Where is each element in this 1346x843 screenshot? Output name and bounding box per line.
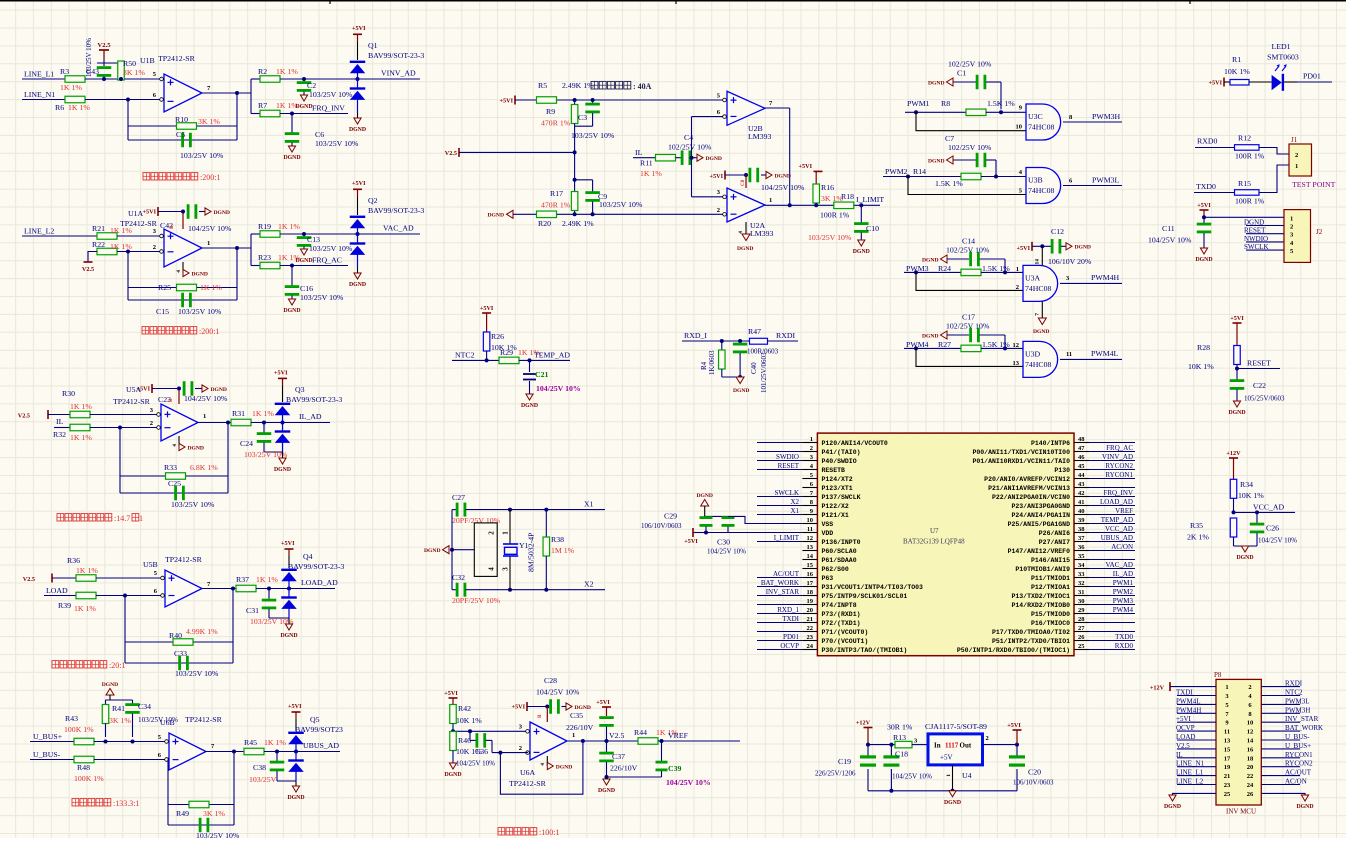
- svg-text:10K 1%: 10K 1%: [1188, 362, 1214, 371]
- capacitor C21: [523, 360, 581, 394]
- svg-text:33: 33: [1078, 571, 1085, 578]
- svg-text:32: 32: [1078, 580, 1085, 587]
- wire R15 to J1: [1259, 165, 1289, 193]
- svg-text:: 40A: : 40A: [633, 82, 652, 91]
- net LOAD_AD wire: [256, 578, 338, 591]
- svg-text:+12V: +12V: [1150, 685, 1165, 692]
- svg-text:2: 2: [717, 207, 720, 214]
- svg-text:2: 2: [1290, 224, 1293, 231]
- svg-text:102/25V 10%: 102/25V 10%: [948, 143, 992, 152]
- svg-text:IL: IL: [56, 417, 64, 426]
- svg-text:10K 1%: 10K 1%: [456, 716, 482, 725]
- svg-text:15: 15: [1224, 746, 1231, 753]
- LED LED1: [1267, 42, 1299, 91]
- svg-text:1K 1%: 1K 1%: [70, 402, 92, 411]
- svg-text:LINE_L2: LINE_L2: [1176, 778, 1204, 786]
- svg-text:TEMP_AD: TEMP_AD: [1101, 516, 1133, 524]
- svg-text:VSS: VSS: [822, 521, 834, 528]
- svg-text:18: 18: [1247, 755, 1254, 762]
- capacitor C43: [85, 38, 111, 79]
- feedback R10: [126, 93, 237, 160]
- svg-text:2K 1%: 2K 1%: [1187, 533, 1209, 542]
- net I_LIMIT: [856, 195, 884, 204]
- svg-text:1K 1%: 1K 1%: [76, 566, 98, 575]
- svg-text:R40: R40: [169, 631, 182, 640]
- svg-text:10K 1%: 10K 1%: [1238, 491, 1264, 500]
- svg-text:V2.5: V2.5: [609, 731, 624, 740]
- svg-text:C16: C16: [300, 284, 313, 293]
- svg-text:P30/INTP3/TAO/(TMIOB1): P30/INTP3/TAO/(TMIOB1): [822, 647, 908, 654]
- svg-text:P75/INTP9/SCLK01/SCL01: P75/INTP9/SCLK01/SCL01: [822, 593, 908, 600]
- svg-text:+5VI: +5VI: [352, 25, 366, 32]
- svg-text:10: 10: [1016, 124, 1023, 131]
- svg-text:20: 20: [807, 607, 814, 614]
- AND gate U3A: [1016, 265, 1058, 301]
- svg-text:3K 1%: 3K 1%: [123, 68, 145, 77]
- net V2.5 R44: [607, 731, 639, 741]
- capacitor C26: [1250, 512, 1297, 546]
- svg-text:PD01: PD01: [1303, 72, 1321, 81]
- wire: [97, 61, 121, 66]
- svg-text:RYCON2: RYCON2: [1105, 462, 1133, 470]
- svg-text:P21/ANI1AVREFM/VCIN13: P21/ANI1AVREFM/VCIN13: [988, 485, 1070, 492]
- svg-text:42: 42: [1078, 490, 1085, 497]
- svg-text:P62/S00: P62/S00: [822, 566, 849, 573]
- svg-text:P14/RXD2/TMIOB0: P14/RXD2/TMIOB0: [1011, 602, 1070, 609]
- capacitor C1: [928, 60, 1001, 110]
- svg-text:BAV99/SOT-23-3: BAV99/SOT-23-3: [368, 206, 424, 215]
- net VCC_AD: [1232, 503, 1296, 515]
- svg-text:V2.5: V2.5: [97, 42, 111, 49]
- svg-text:104/25V 10%: 104/25V 10%: [892, 773, 932, 781]
- op-amp U5A: [113, 385, 206, 441]
- svg-text:RESET: RESET: [778, 462, 800, 470]
- pin4 ground U1A: [176, 262, 208, 277]
- svg-text:28: 28: [1078, 616, 1085, 623]
- svg-text:1.5K 1%: 1.5K 1%: [987, 99, 1015, 108]
- svg-text:LM393: LM393: [748, 132, 771, 141]
- feedback R33 C25: [118, 423, 228, 510]
- caption bus ratio 133.3:1: [72, 799, 139, 808]
- ground DGND Q5: [287, 781, 304, 801]
- svg-text:C2: C2: [307, 81, 316, 90]
- svg-text:VAC_AD: VAC_AD: [1106, 561, 1134, 569]
- svg-text:30: 30: [1078, 598, 1085, 605]
- svg-text:21: 21: [807, 616, 814, 623]
- svg-text:VDD: VDD: [822, 530, 834, 537]
- svg-text:104/25V 10%: 104/25V 10%: [456, 760, 495, 768]
- svg-text:2: 2: [1295, 152, 1298, 159]
- capacitor C39: [605, 741, 711, 787]
- svg-text:34: 34: [1078, 562, 1085, 569]
- svg-text:U1B: U1B: [140, 56, 155, 65]
- svg-text:3K 1%: 3K 1%: [109, 716, 131, 725]
- svg-text:R4: R4: [700, 361, 708, 370]
- svg-text:102/25V 10%: 102/25V 10%: [948, 60, 992, 69]
- capacitor C13: [297, 234, 353, 253]
- svg-text:P60/SCLA0: P60/SCLA0: [822, 548, 857, 555]
- svg-text:105/25V/0603: 105/25V/0603: [1244, 395, 1285, 403]
- svg-text:R46: R46: [458, 736, 471, 745]
- power +5VI J2: [1197, 202, 1284, 219]
- svg-text:R3: R3: [60, 67, 69, 76]
- svg-text:DGND: DGND: [853, 249, 870, 255]
- svg-text:P41/(TAI0): P41/(TAI0): [822, 449, 861, 456]
- net PWM3: [904, 264, 1007, 274]
- svg-text:R26: R26: [491, 332, 504, 341]
- svg-text:29: 29: [1078, 607, 1085, 614]
- net label U_BUS-: [30, 750, 74, 760]
- svg-text:13: 13: [1013, 360, 1020, 367]
- svg-text:1.5K 1%: 1.5K 1%: [935, 179, 963, 188]
- svg-text:104/25V 10%: 104/25V 10%: [536, 688, 580, 697]
- svg-text:TP2412-SR: TP2412-SR: [158, 54, 196, 63]
- svg-text:R44: R44: [634, 728, 647, 737]
- regulator U4 CJA1117-5/SOT-89: [925, 722, 989, 791]
- svg-text:PWM3L: PWM3L: [1285, 697, 1310, 705]
- svg-text:V2.5: V2.5: [23, 576, 35, 583]
- svg-text:+5VI: +5VI: [143, 209, 157, 216]
- svg-text:DGND: DGND: [922, 258, 938, 264]
- capacitor C6: [285, 114, 359, 149]
- power V2.5 U5B: [23, 574, 76, 584]
- svg-text:R43: R43: [65, 714, 78, 723]
- svg-text:1: 1: [1016, 266, 1019, 273]
- svg-text:Out: Out: [960, 742, 972, 750]
- net label IL comp: [633, 148, 656, 158]
- net VINV_AD wire: [280, 69, 420, 82]
- crystal Y1: [503, 510, 536, 590]
- svg-text:41: 41: [1078, 499, 1085, 506]
- svg-text:R11: R11: [640, 159, 653, 168]
- resistor R28 RESET: [1188, 315, 1280, 380]
- svg-text:DGND: DGND: [696, 493, 712, 499]
- svg-text:LED1: LED1: [1271, 42, 1290, 51]
- svg-text:R33: R33: [164, 463, 177, 472]
- decoupling C23: [137, 381, 228, 404]
- net IL_AD wire: [251, 412, 330, 425]
- svg-text:7: 7: [1035, 313, 1041, 316]
- svg-text:R22: R22: [92, 240, 105, 249]
- svg-text:C27: C27: [452, 493, 465, 502]
- net label LOAD: [44, 586, 76, 596]
- svg-text:226/25V/1206: 226/25V/1206: [815, 770, 856, 778]
- svg-text:Q5: Q5: [310, 715, 320, 724]
- svg-text:DGND: DGND: [928, 81, 944, 87]
- svg-text:106/10V 20%: 106/10V 20%: [1048, 257, 1092, 266]
- net label LINE_L2: [22, 227, 97, 237]
- svg-text:AC/OUT: AC/OUT: [1285, 769, 1312, 777]
- svg-text:Q4: Q4: [303, 552, 313, 561]
- resistor R3: [60, 67, 85, 92]
- svg-text:C3: C3: [578, 113, 587, 122]
- svg-text:30R 1%: 30R 1%: [887, 723, 913, 732]
- svg-text:1.5K 1%: 1.5K 1%: [982, 340, 1010, 349]
- svg-text:DGND: DGND: [928, 159, 944, 165]
- wire out U5A: [198, 421, 231, 425]
- svg-text:PD01: PD01: [783, 633, 799, 641]
- pin4 ground U5A: [172, 436, 204, 451]
- svg-text::14.7: :14.7: [114, 514, 130, 523]
- capacitor C12: [1017, 227, 1092, 266]
- svg-text:R12: R12: [1238, 134, 1251, 143]
- svg-text:+5VI: +5VI: [1197, 202, 1211, 209]
- svg-text:AC/ON: AC/ON: [1285, 778, 1307, 786]
- svg-text:12: 12: [1247, 729, 1254, 736]
- svg-text:DGND: DGND: [295, 104, 312, 110]
- svg-text:R17: R17: [550, 189, 563, 198]
- connector J1: [1289, 136, 1336, 189]
- svg-text:1: 1: [207, 240, 210, 247]
- svg-text:103/25V 10%: 103/25V 10%: [315, 139, 359, 148]
- svg-text:103/25V 10%: 103/25V 10%: [180, 151, 224, 160]
- svg-text:DGND: DGND: [598, 788, 615, 794]
- svg-text:DGND: DGND: [521, 403, 538, 409]
- wire to U2A pin2: [557, 212, 727, 216]
- resistor R45: [244, 738, 286, 755]
- resistor R42: [444, 690, 482, 731]
- svg-text:1: 1: [946, 774, 952, 777]
- ground DGND Q3: [274, 452, 291, 473]
- svg-text:PWM2: PWM2: [885, 167, 908, 176]
- wire out U6B: [206, 750, 244, 754]
- svg-text:DGND: DGND: [1228, 410, 1245, 416]
- svg-text:C8: C8: [741, 179, 746, 186]
- svg-text:R23: R23: [258, 253, 271, 262]
- ground rail U4: [868, 789, 1017, 806]
- resistor R46: [450, 732, 483, 764]
- svg-text:24: 24: [807, 643, 814, 650]
- net RXD_I: [682, 331, 750, 343]
- net PWM2: [883, 167, 998, 179]
- wire pin2 U3A: [916, 272, 1023, 290]
- svg-text:1: 1: [139, 514, 143, 523]
- svg-text:2: 2: [150, 420, 153, 427]
- capacitor C37: [599, 741, 637, 777]
- svg-text:TP2412-SR: TP2412-SR: [165, 555, 203, 564]
- svg-text:11: 11: [807, 526, 813, 533]
- diode pair Q3: [274, 370, 342, 453]
- svg-text:V2.5: V2.5: [82, 266, 94, 273]
- resistor R50: [118, 59, 146, 80]
- capacitor C10: [808, 205, 879, 242]
- svg-text:U6A: U6A: [520, 768, 536, 777]
- svg-text:74HC08: 74HC08: [1028, 123, 1055, 132]
- svg-text:BAT_WORK: BAT_WORK: [761, 579, 799, 587]
- svg-text:26: 26: [1078, 634, 1085, 641]
- svg-text:BAV99/SOT-23-3: BAV99/SOT-23-3: [368, 51, 424, 60]
- svg-text:DGND: DGND: [737, 246, 753, 252]
- svg-text:DGND: DGND: [287, 795, 304, 801]
- op-amp U1A: [120, 209, 210, 267]
- svg-text:VINV_AD: VINV_AD: [1102, 453, 1133, 461]
- svg-text:P63: P63: [822, 575, 834, 582]
- svg-text:C34: C34: [138, 702, 151, 711]
- capacitor C11: [1148, 217, 1211, 248]
- svg-text:R36: R36: [67, 556, 80, 565]
- svg-text:+5V: +5V: [940, 754, 953, 762]
- svg-text:DGND: DGND: [424, 548, 440, 554]
- ground DGND Q4: [280, 618, 297, 639]
- svg-text:13: 13: [807, 544, 814, 551]
- svg-text:1117: 1117: [945, 742, 959, 750]
- pin4 ground U6A: [509, 756, 572, 788]
- power +5VI comparator: [500, 96, 537, 105]
- svg-text:U4: U4: [962, 771, 972, 780]
- svg-text:C36: C36: [475, 747, 488, 756]
- svg-text:+5VI: +5VI: [799, 163, 813, 170]
- J2 wires: [1244, 219, 1284, 252]
- ground DGND R4: [722, 375, 750, 394]
- svg-text:DGND: DGND: [283, 155, 300, 161]
- svg-text:DGND: DGND: [444, 772, 461, 778]
- svg-text:DGND: DGND: [280, 633, 297, 639]
- ground DGND C4: [697, 154, 722, 162]
- power +5VI C29: [684, 528, 728, 545]
- svg-text:+5VI: +5VI: [596, 699, 610, 706]
- svg-text:12: 12: [807, 535, 814, 542]
- svg-text:LOAD: LOAD: [1176, 733, 1195, 741]
- svg-text:U5A: U5A: [126, 385, 142, 394]
- capacitor C36: [456, 731, 495, 767]
- wire: [85, 99, 160, 101]
- svg-text:103/25V 10%: 103/25V 10%: [85, 38, 93, 77]
- op-amp U2B: [717, 91, 773, 141]
- net label IL: [54, 417, 70, 428]
- feedback R25 C15: [126, 248, 237, 316]
- svg-text:P136/INPT0: P136/INPT0: [822, 539, 861, 546]
- svg-text:R18: R18: [841, 192, 854, 201]
- svg-text:U5B: U5B: [143, 560, 158, 569]
- svg-text:R35: R35: [1190, 521, 1203, 530]
- ground DGND R35: [1234, 546, 1258, 561]
- ground DGND C2: [295, 95, 312, 110]
- svg-text:1K 1%: 1K 1%: [70, 433, 92, 442]
- svg-text:Q3: Q3: [295, 385, 305, 394]
- svg-text:BAT32G139 LQFP48: BAT32G139 LQFP48: [903, 538, 965, 546]
- svg-text:2: 2: [1016, 284, 1019, 291]
- svg-text:SMT0603: SMT0603: [1267, 53, 1299, 62]
- svg-text:Q1: Q1: [368, 41, 378, 50]
- wire pin5: [908, 177, 1026, 195]
- svg-text:P10TMIOB1/ANI9: P10TMIOB1/ANI9: [1015, 566, 1070, 573]
- svg-text:2.49K 1%: 2.49K 1%: [562, 81, 594, 90]
- svg-text:V2.5: V2.5: [445, 150, 457, 157]
- resistor R6: [55, 96, 90, 112]
- resistor R1 with LED1: [1209, 55, 1272, 87]
- capacitor C40: [733, 341, 768, 393]
- svg-text:12: 12: [1013, 342, 1020, 349]
- svg-text:100R 1%: 100R 1%: [1235, 197, 1265, 206]
- svg-text:VCC_AD: VCC_AD: [1253, 503, 1285, 512]
- svg-text:P120/ANI14/VCOUT0: P120/ANI14/VCOUT0: [822, 440, 888, 447]
- caption inductor current ratio: [57, 514, 143, 523]
- svg-text::100:1: :100:1: [539, 828, 559, 837]
- svg-text:TXDI: TXDI: [782, 615, 799, 623]
- svg-text:X1: X1: [584, 500, 594, 509]
- svg-text:LOAD: LOAD: [46, 586, 68, 595]
- svg-text::133.3:1: :133.3:1: [113, 799, 139, 808]
- net RXDI: [768, 331, 799, 341]
- svg-text:+5VI: +5VI: [1230, 315, 1244, 322]
- svg-text:46: 46: [1078, 454, 1085, 461]
- decoupling C8: [710, 168, 805, 192]
- capacitor C7: [928, 134, 996, 177]
- svg-text:16: 16: [1247, 746, 1254, 753]
- decoupling C42: [143, 204, 232, 233]
- diode pair Q2: [349, 180, 424, 288]
- wire: [117, 235, 160, 237]
- svg-text:C20: C20: [1028, 768, 1041, 777]
- svg-text:LINE_N1: LINE_N1: [24, 90, 55, 99]
- op-amp U1B: [140, 54, 211, 112]
- op-amp U6B: [158, 715, 223, 770]
- net label LINE_N1: [22, 90, 65, 100]
- svg-text:P15/TMIOD0: P15/TMIOD0: [1031, 611, 1070, 618]
- svg-text:1M 1%: 1M 1%: [551, 546, 575, 555]
- capacitor C3: [571, 100, 615, 152]
- svg-text:1: 1: [1295, 163, 1298, 170]
- svg-text:TXD0: TXD0: [1115, 633, 1133, 641]
- svg-text:P70/(VCOUT1): P70/(VCOUT1): [822, 638, 869, 645]
- svg-text:C32: C32: [452, 573, 465, 582]
- svg-text:R30: R30: [62, 389, 75, 398]
- svg-text:10K 1%: 10K 1%: [1224, 67, 1250, 76]
- svg-text:35: 35: [1078, 553, 1085, 560]
- svg-text:+5VI: +5VI: [1209, 80, 1223, 87]
- svg-text:2: 2: [153, 244, 156, 251]
- svg-text:P121/X1: P121/X1: [822, 512, 849, 519]
- wire pin10: [916, 112, 1026, 130]
- svg-text:20PF/25V 10%: 20PF/25V 10%: [452, 516, 501, 525]
- wire to U2B pin5: [557, 98, 727, 102]
- svg-text:VAC_AD: VAC_AD: [383, 224, 414, 233]
- svg-text:PWM1: PWM1: [1113, 579, 1134, 587]
- svg-text:UBUS_AD: UBUS_AD: [303, 741, 339, 750]
- svg-text:LM393: LM393: [750, 229, 773, 238]
- caption sampling ratio 200:1: [143, 173, 220, 182]
- svg-text:17: 17: [1224, 755, 1231, 762]
- resistor R48: [74, 756, 170, 783]
- wire divider: [573, 152, 593, 214]
- svg-text:1K 1%: 1K 1%: [256, 575, 278, 584]
- resistor R24: [938, 264, 1023, 276]
- svg-text:103/25V 10%: 103/25V 10%: [300, 293, 344, 302]
- svg-text:+5VI: +5VI: [352, 180, 366, 187]
- svg-text:39: 39: [1078, 517, 1085, 524]
- svg-text:SWDIO: SWDIO: [776, 453, 799, 461]
- svg-text:PWM3H: PWM3H: [1285, 706, 1310, 714]
- svg-text:U_BUS-: U_BUS-: [1285, 733, 1310, 741]
- svg-text:102/25V 10%: 102/25V 10%: [946, 246, 990, 255]
- svg-text:DGND: DGND: [706, 156, 722, 162]
- wire out U5B: [202, 587, 236, 591]
- MCU left nets: [757, 443, 802, 651]
- svg-text:106/10V/0603: 106/10V/0603: [1013, 779, 1054, 787]
- svg-text:LOAD_AD: LOAD_AD: [1100, 498, 1133, 506]
- svg-text:C11: C11: [1162, 224, 1175, 233]
- svg-text:R28: R28: [1197, 343, 1210, 352]
- resistor R11: [640, 154, 681, 178]
- svg-text:RXD_1: RXD_1: [777, 606, 799, 614]
- svg-text:C38: C38: [253, 763, 266, 772]
- svg-text:+5VI: +5VI: [274, 370, 288, 377]
- resistor R41: [102, 704, 131, 737]
- feedback R40 C33: [123, 589, 233, 679]
- caption overcurrent point 40A: [591, 81, 652, 91]
- svg-text:+5VI: +5VI: [500, 98, 514, 105]
- svg-text:DGND: DGND: [1244, 219, 1264, 227]
